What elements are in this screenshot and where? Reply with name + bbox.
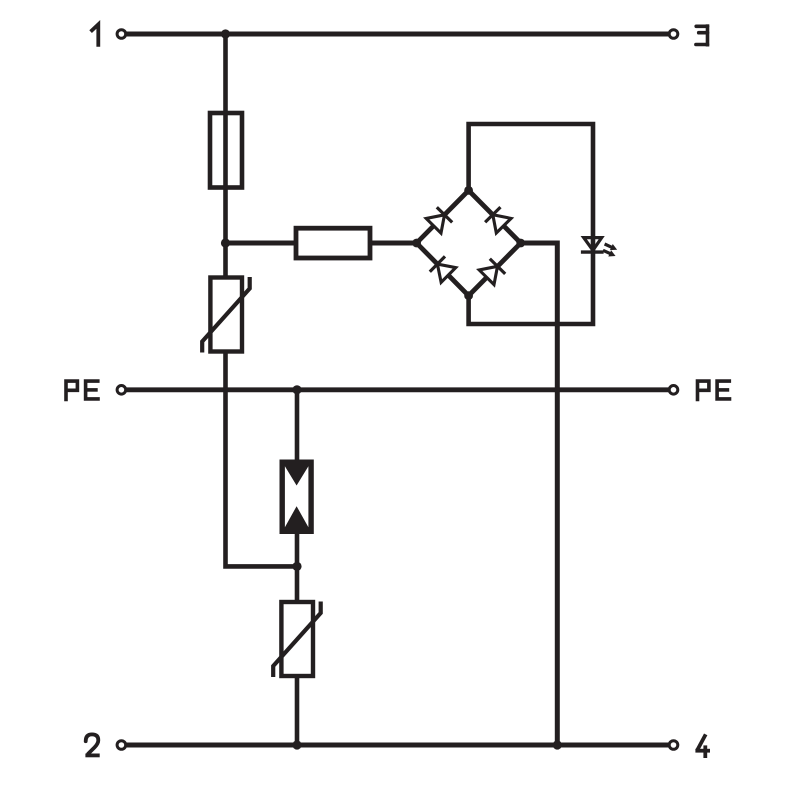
LED emission arrow 2 [602,247,617,259]
junction node PE / GDT [292,385,301,394]
junction node bottom bus / bridge branch [553,740,562,749]
diode D2 (upper-left, points to top corner) [426,207,452,233]
resistor R1 [296,228,370,258]
wire PE bus [121,387,673,392]
terminal 4 [669,741,678,750]
junction node top bus / left branch [221,29,230,38]
wire left branch vertical (from top bus through fuse to varistor) [223,34,228,278]
junction node bridge bottom corner [464,291,473,300]
wire GDT bottom through node to varistor 2 [295,534,300,603]
wire top bus (terminal 1 to terminal 3) [121,32,673,37]
diode D4 (lower-right, points to right corner) [479,259,505,285]
junction node A (GDT bottom / varistor branch) [292,562,301,571]
LED emission arrow 1 [603,241,618,253]
LED V1 [581,238,619,260]
bridge rectifier diamond [417,190,521,295]
junction node bridge right corner [516,239,525,248]
gas discharge tube F2 [280,460,313,534]
varistor RU1 [202,277,250,353]
wire bottom bus (terminal 2 to terminal 4) [121,743,673,748]
junction node bridge top corner [464,186,473,195]
label PE right [698,381,732,401]
label terminal 3 [696,24,708,46]
wire varistor 2 to bottom bus [295,676,300,745]
wire horizontal through resistor to bridge left corner [226,241,417,246]
label terminal 2 [85,734,99,755]
wire bridge right corner to terminal 4 branch [521,243,558,745]
diode D3 (upper-right, points to top corner) [485,207,511,233]
terminal PE right [669,386,678,395]
junction node bottom bus / varistor 2 [292,740,301,749]
diode D1 (lower-left, points to left corner) [430,256,456,282]
wire below varistor down and right to GDT node [226,352,298,567]
terminal 1 [117,30,126,39]
label terminal 1 [91,24,99,46]
junction node fuse output / resistor [221,238,230,247]
varistor RU2 [273,602,321,678]
label PE left [66,381,100,401]
wire LED loop (bridge top corner, up, right, down through LED, left, to bridge bottom corner) [469,124,593,324]
terminal 2 [117,741,126,750]
wire PE junction down to GDT [295,390,300,460]
fuse F1 [210,113,242,188]
terminal PE left [117,386,126,395]
junction node bridge left corner [412,239,421,248]
label terminal 4 [695,734,710,758]
terminal 3 [669,30,678,39]
